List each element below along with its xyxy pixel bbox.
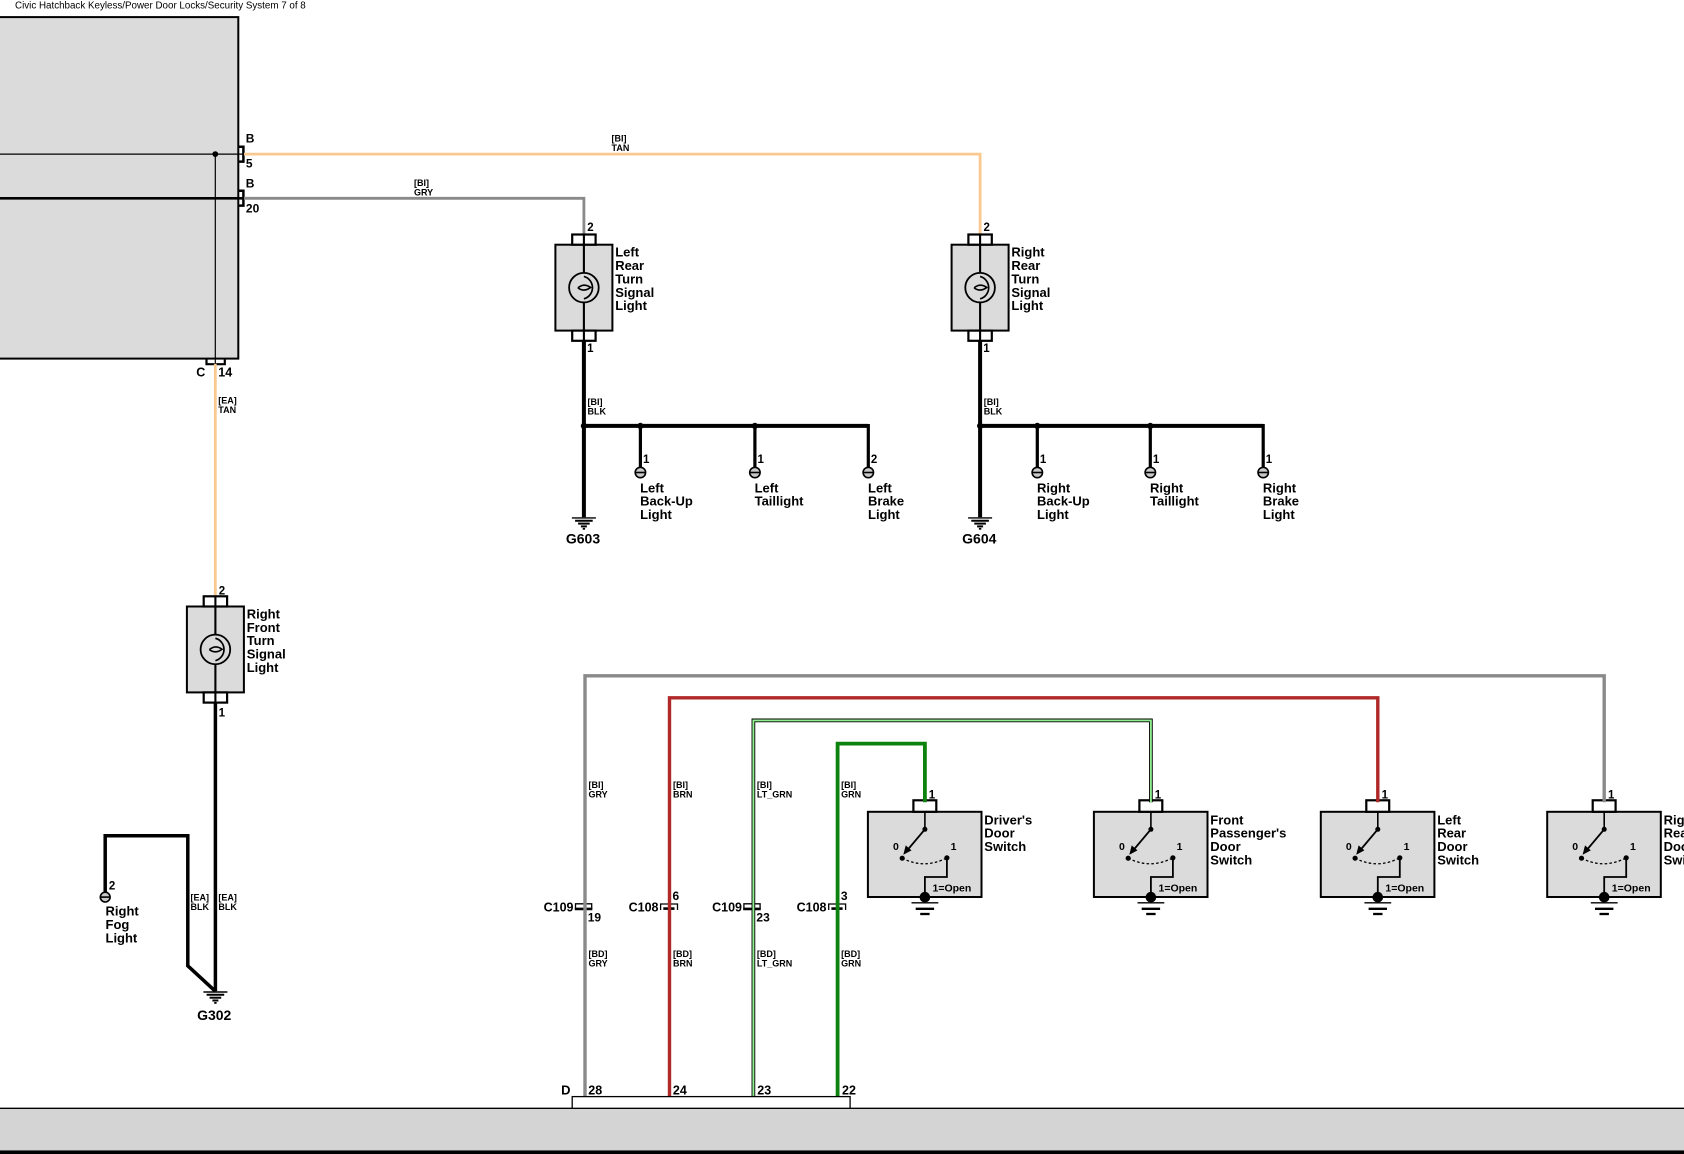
svg-text:TAN: TAN <box>218 405 236 415</box>
wire [BI] GRY from B20 to left rear turn signal light <box>244 198 584 234</box>
svg-text:G604: G604 <box>962 530 996 546</box>
wire label [EA] BLK (main) <box>218 893 237 913</box>
pin number 20 <box>246 202 260 216</box>
svg-text:[BI]: [BI] <box>757 780 772 790</box>
svg-text:0: 0 <box>1572 841 1578 853</box>
connector C109 pin 19 (GRY) <box>575 904 593 910</box>
label C109 (LT_GRN) <box>712 900 742 914</box>
svg-text:[BD]: [BD] <box>841 949 860 959</box>
wire label [BI] BRN <box>673 780 693 800</box>
pin bracket C14 <box>207 359 225 364</box>
pin label B (5) <box>246 132 255 146</box>
pin bracket B5 <box>239 147 244 162</box>
pin number 2 fog light <box>109 881 115 893</box>
switch S4 Right Rear Door Switch <box>1547 790 1661 903</box>
svg-text:BLK: BLK <box>191 902 210 912</box>
svg-text:1: 1 <box>587 343 594 355</box>
svg-text:[EA]: [EA] <box>218 396 237 406</box>
wire label [BI] GRY <box>414 178 433 198</box>
svg-text:B: B <box>246 132 255 146</box>
svg-text:1: 1 <box>643 454 650 466</box>
svg-text:[BI]: [BI] <box>589 780 604 790</box>
svg-text:BLK: BLK <box>984 407 1003 417</box>
junction node right back-up <box>1034 423 1040 429</box>
connector C109 pin 23 (LT_GRN) <box>743 904 761 910</box>
terminal Left Taillight <box>750 426 804 509</box>
label G302 <box>197 1007 231 1023</box>
svg-text:Light: Light <box>247 660 279 675</box>
terminal Right Brake Light <box>1258 424 1299 522</box>
switch S3 Left Rear Door Switch <box>1321 790 1435 903</box>
svg-text:B: B <box>246 177 255 191</box>
svg-text:[BD]: [BD] <box>757 949 776 959</box>
label Driver's Door Switch <box>984 812 1032 854</box>
svg-text:Switch: Switch <box>1210 853 1252 868</box>
label Right Rear Turn Signal Light <box>1011 245 1050 314</box>
svg-text:BRN: BRN <box>673 790 693 800</box>
svg-text:BLK: BLK <box>218 902 237 912</box>
label Front Passenger's Door Switch <box>1210 812 1286 867</box>
ground below S4 <box>1591 903 1618 914</box>
svg-text:Light: Light <box>868 507 900 522</box>
svg-text:2: 2 <box>587 222 593 234</box>
svg-text:Light: Light <box>1037 507 1069 522</box>
svg-text:C: C <box>196 366 205 380</box>
svg-text:1: 1 <box>951 841 957 853</box>
pin number 3 <box>841 889 848 903</box>
ground G604 <box>968 518 992 529</box>
svg-text:Light: Light <box>640 507 672 522</box>
svg-text:1=Open: 1=Open <box>1159 883 1198 895</box>
switch S1 Driver's Door Switch <box>868 790 982 903</box>
terminal Right Fog Light <box>100 892 110 902</box>
junction node left taillight <box>752 423 758 429</box>
svg-text:1: 1 <box>1153 454 1160 466</box>
label Right Fog Light <box>106 904 140 946</box>
label G603 <box>566 530 600 546</box>
wire [BI]/[BD] GRY door switch feed <box>585 676 1604 1097</box>
svg-text:1: 1 <box>1608 790 1615 802</box>
svg-text:[EA]: [EA] <box>218 893 237 903</box>
svg-text:[BD]: [BD] <box>589 949 608 959</box>
svg-text:BRN: BRN <box>673 959 693 969</box>
svg-text:Light: Light <box>615 298 647 313</box>
svg-text:1: 1 <box>758 454 765 466</box>
terminal Right Back-Up Light <box>1032 426 1090 522</box>
pin bracket B20 <box>239 191 244 206</box>
svg-text:0: 0 <box>1346 841 1352 853</box>
wire label [BI] LT_GRN <box>757 780 792 800</box>
ground below S1 <box>912 903 939 914</box>
control unit box <box>0 17 238 359</box>
svg-text:D: D <box>561 1083 570 1098</box>
svg-text:[BI]: [BI] <box>588 397 603 407</box>
wire label [BD] GRY <box>589 949 608 969</box>
svg-text:1: 1 <box>1155 790 1162 802</box>
bottom chassis bar <box>0 1108 1684 1154</box>
svg-text:1: 1 <box>983 343 990 355</box>
wire [BI] BLK right rear <box>978 341 982 426</box>
svg-text:24: 24 <box>673 1084 687 1098</box>
label Right Front Turn Signal Light <box>247 606 286 675</box>
svg-text:C109: C109 <box>544 900 574 914</box>
wire [EA] BLK right front to G302 <box>214 703 218 992</box>
internal wire to pin C14 <box>214 154 216 364</box>
svg-text:BLK: BLK <box>588 407 607 417</box>
junction node left back-up <box>637 423 643 429</box>
wire label [BD] LT_GRN <box>757 949 792 969</box>
svg-text:GRN: GRN <box>841 790 861 800</box>
wire label [BI] GRN <box>841 780 861 800</box>
svg-text:G302: G302 <box>197 1007 231 1023</box>
wire label [BD] BRN <box>673 949 693 969</box>
svg-text:Light: Light <box>1011 298 1043 313</box>
label G604 <box>962 530 996 546</box>
internal wire to pin B5 <box>0 153 244 155</box>
terminal Left Back-Up Light <box>635 426 693 522</box>
wire [BI]/[BD] BRN door switch feed <box>670 698 1378 1097</box>
svg-text:Switch: Switch <box>1664 853 1684 868</box>
junction node right bus <box>977 423 983 429</box>
terminal Right Taillight <box>1145 426 1199 509</box>
svg-text:1: 1 <box>1382 790 1389 802</box>
wire label [EA] TAN <box>218 396 237 416</box>
svg-text:[BD]: [BD] <box>673 949 692 959</box>
wire [BI] TAN from B5 to right rear turn signal light <box>244 154 980 234</box>
diagram title <box>15 1 306 12</box>
pin number 28 <box>588 1084 602 1098</box>
svg-text:GRY: GRY <box>589 959 608 969</box>
connector label D <box>561 1083 570 1098</box>
svg-text:G603: G603 <box>566 530 600 546</box>
svg-text:2: 2 <box>984 222 990 234</box>
svg-text:Taillight: Taillight <box>755 494 805 509</box>
svg-text:Light: Light <box>106 930 138 945</box>
svg-text:Switch: Switch <box>1437 853 1479 868</box>
svg-text:6: 6 <box>673 889 680 903</box>
lamp L3 Right Front Turn Signal Light <box>187 586 244 720</box>
ground below S2 <box>1138 903 1165 914</box>
wire [BI] BLK left rear <box>582 341 586 426</box>
internal wire to pin B20 <box>0 197 244 200</box>
pin number 23 <box>756 910 770 924</box>
svg-text:22: 22 <box>842 1084 856 1098</box>
svg-text:23: 23 <box>757 1084 771 1098</box>
pin number 23 (D) <box>757 1084 771 1098</box>
svg-text:23: 23 <box>756 910 770 924</box>
svg-text:14: 14 <box>218 366 232 380</box>
wire [EA] BLK right fog light <box>105 836 215 992</box>
wire [EA] TAN from C14 to right front turn signal light <box>214 364 217 597</box>
pin number 22 <box>842 1084 856 1098</box>
svg-text:GRY: GRY <box>589 790 608 800</box>
svg-text:Switch: Switch <box>984 839 1026 854</box>
svg-text:1: 1 <box>929 790 936 802</box>
svg-text:TAN: TAN <box>612 143 630 153</box>
svg-text:[EA]: [EA] <box>191 893 210 903</box>
svg-text:GRN: GRN <box>841 959 861 969</box>
junction node inside control unit <box>212 151 218 157</box>
label C109 (GRY) <box>544 900 574 914</box>
svg-text:0: 0 <box>1119 841 1125 853</box>
pin number 19 <box>588 910 602 924</box>
label Left Rear Turn Signal Light <box>615 245 654 314</box>
wire [BI]/[BD] GRN door switch feed <box>838 744 925 1097</box>
connector C108 pin 6 (BRN) <box>661 904 678 910</box>
svg-text:1: 1 <box>219 708 226 720</box>
svg-text:[BI]: [BI] <box>612 134 627 144</box>
junction node left bus <box>581 423 587 429</box>
wire label [BI] BLK (left) <box>588 397 607 417</box>
svg-text:[BI]: [BI] <box>414 178 429 188</box>
svg-text:Civic Hatchback Keyless/Power: Civic Hatchback Keyless/Power Door Locks… <box>15 1 306 12</box>
wire left bus to G603 <box>582 426 586 517</box>
label Left Rear Door Switch <box>1437 812 1479 867</box>
lamp L2 Right Rear Turn Signal Light <box>952 222 1009 355</box>
wire label [BD] GRN <box>841 949 861 969</box>
pin label B (20) <box>246 177 255 191</box>
wire [BI]/[BD] LT_GRN door switch feed <box>753 720 1151 1097</box>
svg-text:1=Open: 1=Open <box>1612 883 1651 895</box>
svg-text:1: 1 <box>1630 841 1636 853</box>
svg-text:Taillight: Taillight <box>1150 494 1200 509</box>
svg-text:1: 1 <box>1177 841 1183 853</box>
svg-text:Light: Light <box>1263 507 1295 522</box>
connector C108 pin 3 (GRN) <box>829 904 846 910</box>
ground below S3 <box>1364 903 1391 914</box>
wire right bus to G604 <box>978 426 982 517</box>
svg-text:C108: C108 <box>629 900 659 914</box>
connector D box <box>572 1097 850 1109</box>
svg-text:LT_GRN: LT_GRN <box>757 959 792 969</box>
svg-text:GRY: GRY <box>414 188 433 198</box>
pin label C (14) <box>196 366 205 380</box>
svg-text:C108: C108 <box>797 900 827 914</box>
switch S2 Front Passenger's Door Switch <box>1094 790 1208 903</box>
ground G302 <box>203 992 227 1003</box>
pin number 14 <box>218 366 232 380</box>
svg-text:1: 1 <box>1266 454 1273 466</box>
ground G603 <box>572 518 596 529</box>
terminal Left Brake Light <box>863 424 904 522</box>
pin number 24 <box>673 1084 687 1098</box>
label C108 (GRN) <box>797 900 827 914</box>
wire label [BI] BLK (right) <box>984 397 1003 417</box>
svg-text:LT_GRN: LT_GRN <box>757 790 792 800</box>
svg-text:5: 5 <box>246 157 253 171</box>
svg-text:3: 3 <box>841 889 848 903</box>
svg-text:1: 1 <box>1040 454 1047 466</box>
svg-text:2: 2 <box>219 586 225 598</box>
svg-text:2: 2 <box>871 454 877 466</box>
wire left ground bus <box>584 424 868 428</box>
label C108 (BRN) <box>629 900 659 914</box>
svg-text:20: 20 <box>246 202 260 216</box>
wire right ground bus <box>980 424 1263 428</box>
svg-text:2: 2 <box>109 881 115 893</box>
svg-text:C109: C109 <box>712 900 742 914</box>
svg-text:0: 0 <box>893 841 899 853</box>
pin number 6 <box>673 889 680 903</box>
wire label [EA] BLK (fog) <box>191 893 210 913</box>
svg-text:[BI]: [BI] <box>841 780 856 790</box>
svg-text:[BI]: [BI] <box>673 780 688 790</box>
svg-text:19: 19 <box>588 910 602 924</box>
junction node right taillight <box>1147 423 1153 429</box>
wire label [BI] TAN <box>612 134 630 154</box>
svg-text:1: 1 <box>1404 841 1410 853</box>
svg-text:[BI]: [BI] <box>984 397 999 407</box>
svg-text:28: 28 <box>588 1084 602 1098</box>
label Right Rear Door Switch <box>1664 812 1684 867</box>
svg-text:1=Open: 1=Open <box>1385 883 1424 895</box>
pin number 5 <box>246 157 253 171</box>
svg-text:1=Open: 1=Open <box>933 883 972 895</box>
wire label [BI] GRY (switch feed) <box>589 780 608 800</box>
lamp L1 Left Rear Turn Signal Light <box>555 222 612 355</box>
